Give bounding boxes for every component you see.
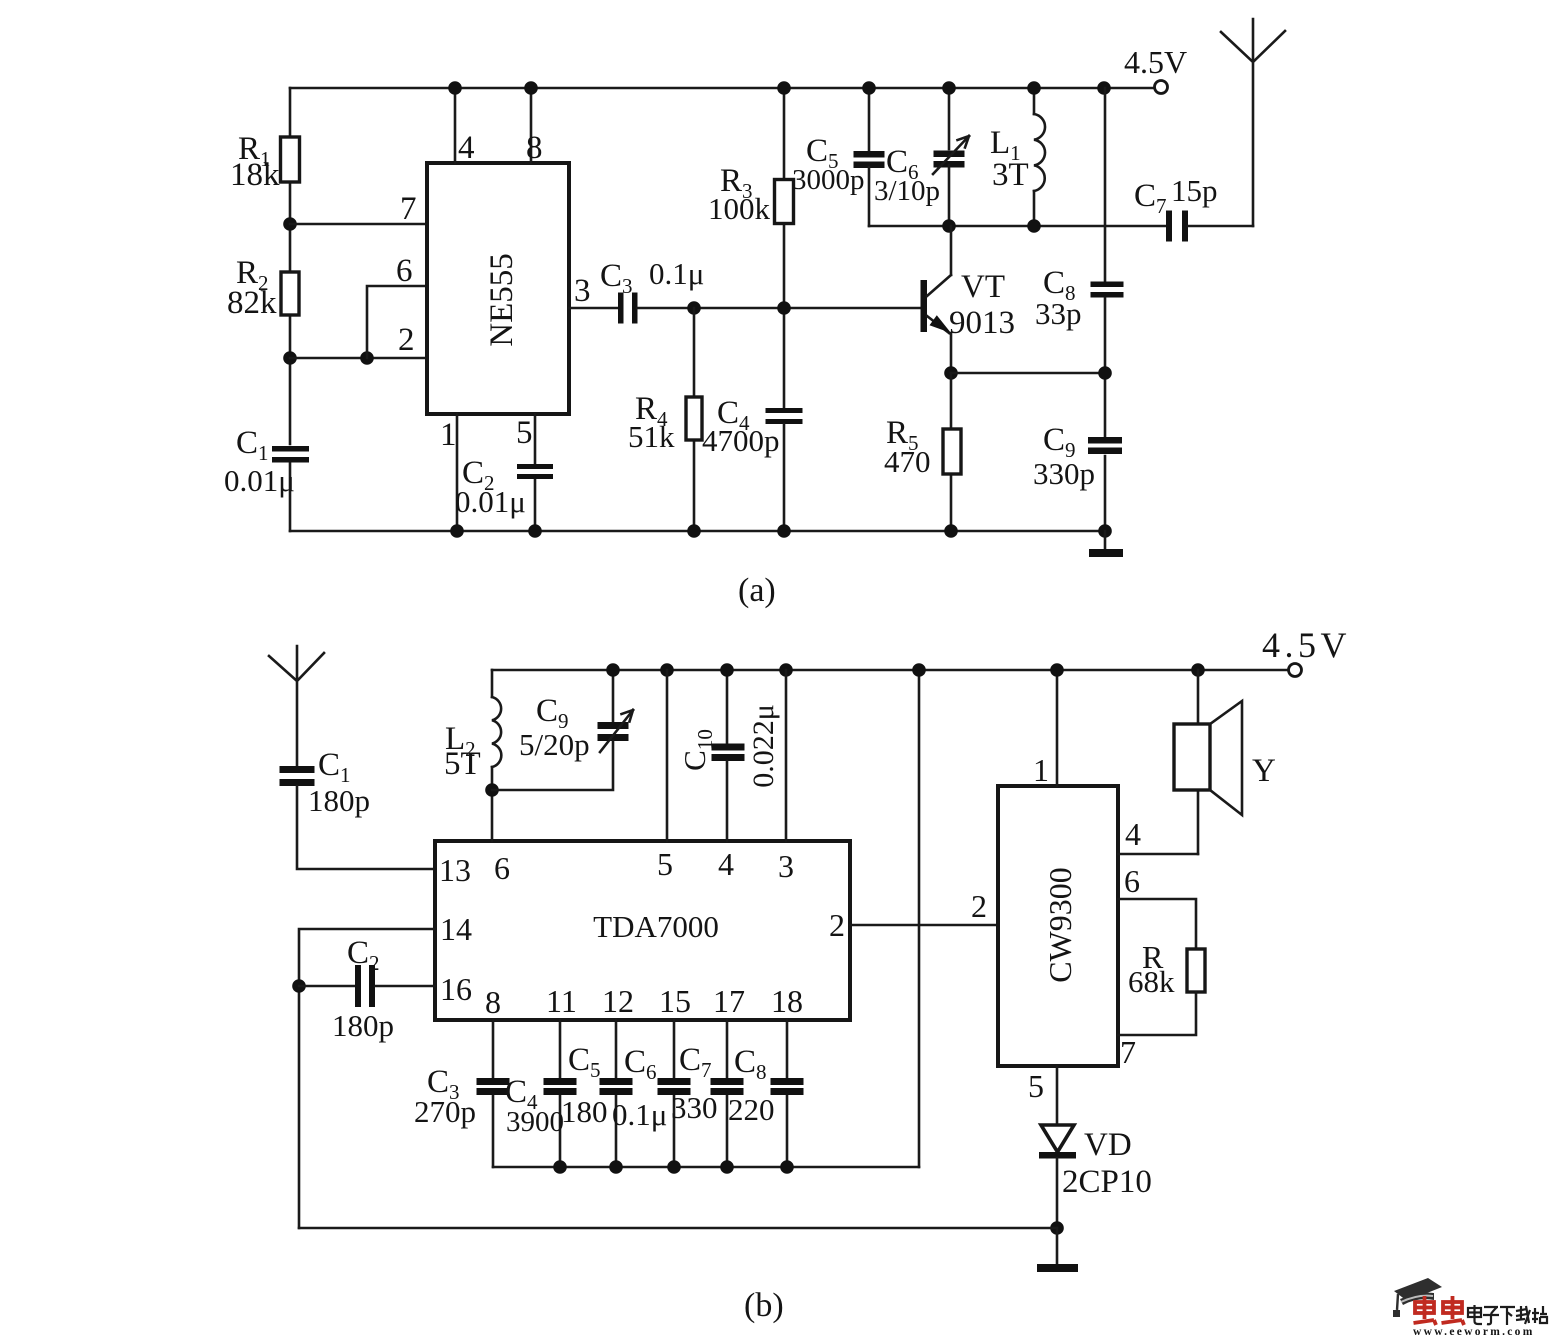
svg-text:3: 3 — [574, 273, 591, 309]
wire C9 lower + link to L2 — [492, 741, 613, 790]
wire pin 5 wire (b) — [666, 670, 669, 841]
antenna (b) — [269, 646, 324, 766]
IC U2 TDA7000 box — [435, 841, 850, 1020]
capacitor C4 4700p — [766, 408, 803, 413]
svg-text:0.01μ: 0.01μ — [455, 484, 526, 519]
svg-text:4700p: 4700p — [702, 423, 780, 458]
wire C8 branch upper — [1104, 88, 1107, 283]
wire R4 branch — [693, 308, 696, 531]
svg-text:18k: 18k — [230, 157, 280, 193]
wire L1 branch lower — [1033, 191, 1036, 226]
svg-text:17: 17 — [713, 983, 745, 1019]
svg-text:16: 16 — [440, 971, 472, 1007]
node node diode/bottom wire — [1050, 1221, 1064, 1235]
pin 7 wire CW9300 — [1118, 992, 1196, 1035]
node node bus 787 — [780, 1160, 794, 1174]
wire pin 6 to pin 2 tie — [367, 286, 427, 358]
svg-text:180p: 180p — [332, 1008, 394, 1043]
svg-text:180: 180 — [561, 1094, 608, 1129]
node node R3 rail — [777, 81, 791, 95]
resistor R1 18k — [281, 137, 300, 182]
node node collector/C6 — [942, 219, 956, 233]
wire C5 branch lower — [868, 167, 871, 226]
svg-text:5: 5 — [657, 846, 673, 882]
node node R5 gnd — [944, 524, 958, 538]
svg-text:270p: 270p — [414, 1094, 476, 1129]
wire pin 5 wire lower — [534, 479, 537, 531]
wire pin 2 wire — [290, 357, 427, 360]
svg-text:VT: VT — [961, 269, 1005, 305]
wire C4 bottom wire — [783, 424, 786, 531]
transistor Q1 VT 9013 — [921, 280, 928, 332]
wire L2 bottom to pin 6 — [491, 767, 494, 841]
wire pin 8 wire — [530, 88, 533, 163]
svg-text:www.eeworm.com: www.eeworm.com — [1413, 1326, 1535, 1337]
node junction R2/C1/pin2 — [283, 351, 297, 365]
svg-text:0.1μ: 0.1μ — [649, 256, 704, 291]
node node emitter — [944, 366, 958, 380]
wire caps ground bus — [493, 1166, 919, 1169]
node node bus 616 — [609, 1160, 623, 1174]
svg-text:4: 4 — [718, 846, 734, 882]
node node C10 rail — [720, 663, 734, 677]
antenna (a) — [1221, 19, 1285, 226]
svg-text:15p: 15p — [1171, 173, 1218, 208]
svg-text:4: 4 — [1125, 816, 1141, 852]
svg-text:8: 8 — [485, 984, 501, 1020]
capacitor C3 branch (b) — [492, 1020, 495, 1167]
svg-text:VD: VD — [1084, 1127, 1132, 1163]
node node L1 rail — [1027, 81, 1041, 95]
node junction R1/R2/pin7 — [283, 217, 297, 231]
svg-text:Y: Y — [1252, 753, 1276, 789]
svg-text:(a): (a) — [738, 572, 776, 609]
svg-text:13: 13 — [439, 852, 471, 888]
svg-text:3: 3 — [778, 848, 794, 884]
node node C6 rail — [942, 81, 956, 95]
svg-text:6: 6 — [1124, 863, 1140, 899]
wire pin 5 wire upper — [534, 414, 537, 464]
node node C2 gnd — [528, 524, 542, 538]
svg-text:2: 2 — [971, 888, 987, 924]
svg-text:330p: 330p — [1033, 456, 1095, 491]
node node bus 727 — [720, 1160, 734, 1174]
node node bus 674 — [667, 1160, 681, 1174]
svg-text:11: 11 — [546, 983, 577, 1019]
node node R3/C4/base line — [777, 301, 791, 315]
capacitor C7 branch (b) — [726, 1020, 729, 1167]
wire C2 to pin 16 — [375, 985, 435, 988]
svg-text:8: 8 — [526, 130, 543, 166]
svg-text:0.1μ: 0.1μ — [612, 1097, 667, 1132]
wire C10 upper — [726, 670, 729, 744]
svg-text:4.5V: 4.5V — [1124, 44, 1187, 80]
wire tank bottom line — [869, 225, 1166, 228]
watermark logo: graduation cap — [1393, 1278, 1442, 1317]
svg-text:NE555: NE555 — [484, 253, 520, 347]
node node gnd symbol — [1098, 524, 1112, 538]
wire pin 4 wire — [454, 88, 457, 163]
wire pin 3 wire — [569, 307, 618, 310]
svg-text:1: 1 — [440, 417, 457, 453]
wire C6 branch upper — [948, 88, 951, 149]
node node C4 gnd — [777, 524, 791, 538]
pin 1 wire CW9300 — [1056, 670, 1059, 786]
node node L2/C9 (b) — [485, 783, 499, 797]
svg-text:6: 6 — [396, 253, 413, 289]
svg-text:CW9300: CW9300 — [1042, 867, 1078, 983]
pin 6 wire CW9300 — [1118, 899, 1196, 949]
capacitor C7 15p antenna coupling — [1166, 211, 1172, 242]
svg-text:5: 5 — [516, 415, 533, 451]
svg-text:4: 4 — [458, 130, 475, 166]
wire diode to gnd node — [1056, 1158, 1059, 1228]
wire bottom long wire (b) — [299, 1227, 1057, 1230]
wire C10 lower — [726, 761, 729, 841]
wire pin 7 wire — [290, 223, 427, 226]
wire C9 bottom wire — [1104, 456, 1107, 531]
node node R4 gnd — [687, 524, 701, 538]
wire R3/C4 branch upper — [783, 88, 786, 408]
svg-text:18: 18 — [771, 983, 803, 1019]
diode VD 2CP10 — [1041, 1125, 1074, 1152]
wire C9 branch upper (b) — [612, 670, 615, 722]
op-amp U1 NE555 timer IC box — [427, 163, 569, 414]
svg-text:5T: 5T — [444, 746, 481, 782]
watermark red characters — [1414, 1296, 1465, 1325]
wire left vertical R1/R2/C1 branch upper — [289, 88, 292, 444]
wire C2 left wire — [299, 985, 355, 988]
svg-text:180p: 180p — [308, 783, 370, 818]
svg-text:3/10p: 3/10p — [874, 175, 940, 207]
svg-text:0.022μ: 0.022μ — [747, 704, 780, 788]
resistor R 68k — [1187, 949, 1205, 992]
svg-text:3T: 3T — [992, 157, 1029, 193]
svg-text:68k: 68k — [1128, 964, 1175, 999]
svg-text:TDA7000: TDA7000 — [593, 909, 719, 944]
node node pin1 gnd — [450, 524, 464, 538]
ground (a) — [1104, 531, 1107, 550]
power terminal 4.5V (b) — [1289, 664, 1302, 677]
wire L2 top — [491, 670, 494, 697]
node node C5 rail — [862, 81, 876, 95]
svg-text:2CP10: 2CP10 — [1062, 1164, 1152, 1200]
svg-text:100k: 100k — [708, 191, 771, 226]
wire emitter to C8/C9 node — [951, 372, 1105, 375]
capacitor C5 branch (b) — [615, 1020, 618, 1167]
node node CW pin1 rail — [1050, 663, 1064, 677]
capacitor C9 330p — [1088, 437, 1122, 444]
ground (b) — [1056, 1228, 1059, 1265]
svg-text:0.01μ: 0.01μ — [224, 463, 295, 498]
svg-text:33p: 33p — [1035, 296, 1082, 331]
node node speaker rail — [1191, 663, 1205, 677]
svg-text:5/20p: 5/20p — [519, 727, 590, 762]
wire pin 14 wire — [299, 929, 435, 1228]
capacitor C1 180p (b) — [280, 766, 315, 773]
svg-text:51k: 51k — [628, 419, 675, 454]
node node pin3 rail (b) — [779, 663, 793, 677]
capacitor C2 0.01u — [517, 464, 553, 469]
svg-text:12: 12 — [602, 983, 634, 1019]
svg-text:470: 470 — [884, 444, 931, 479]
wire pin 3 wire (b) — [785, 670, 788, 841]
wire R5 branch — [950, 373, 953, 531]
node node C2/pin14 (b) — [292, 979, 306, 993]
wire ground rail (a) — [290, 530, 1105, 533]
wire bus riser to rail — [918, 670, 921, 1167]
wire pin 2 wire TDA to CW — [850, 924, 998, 927]
node node rail/C8 branch — [1097, 81, 1111, 95]
wire C7 to antenna — [1188, 225, 1253, 228]
IC U3 CW9300 audio amp box — [998, 786, 1118, 1066]
wire top 4.5V rail (b) — [492, 669, 1288, 672]
svg-text:220: 220 — [728, 1092, 775, 1127]
wire C6 branch lower — [948, 165, 951, 226]
svg-text:2: 2 — [398, 322, 415, 358]
svg-text:330: 330 — [671, 1090, 718, 1125]
svg-text:3900: 3900 — [506, 1106, 564, 1138]
node node pin8 rail — [524, 81, 538, 95]
capacitor C8 branch (b) — [786, 1020, 789, 1167]
wire L1 branch upper — [1033, 88, 1036, 114]
svg-text:(b): (b) — [744, 1287, 784, 1324]
node node C8/C9/emitter — [1098, 366, 1112, 380]
svg-text:2: 2 — [829, 907, 845, 943]
svg-text:9013: 9013 — [949, 305, 1015, 341]
svg-text:7: 7 — [1120, 1034, 1136, 1070]
wire C3 to base node — [637, 307, 921, 310]
node node L1 bottom — [1027, 219, 1041, 233]
node node pin5 rail (b) — [660, 663, 674, 677]
node node C9 rail (b) — [606, 663, 620, 677]
svg-text:7: 7 — [400, 191, 417, 227]
capacitor C1 0.01u — [272, 446, 309, 452]
node node bus 560 — [553, 1160, 567, 1174]
wire left vertical C1 bottom to ground rail — [289, 460, 292, 531]
node node pin4 rail — [448, 81, 462, 95]
pin 5 wire CW9300 — [1056, 1066, 1059, 1125]
svg-text:3000p: 3000p — [792, 164, 865, 196]
svg-text:4.5V: 4.5V — [1262, 625, 1351, 665]
node node C3/R4 — [687, 301, 701, 315]
capacitor C4 branch (b) — [559, 1020, 562, 1167]
svg-text:6: 6 — [494, 850, 510, 886]
wire C1 to pin 13 — [297, 786, 435, 869]
wire C8 to emitter node — [1104, 298, 1107, 441]
node node riser rail — [912, 663, 926, 677]
resistor R2 82k — [281, 272, 299, 315]
svg-text:15: 15 — [659, 983, 691, 1019]
wire C5 branch upper — [868, 88, 871, 152]
capacitor C3 0.1u coupling — [618, 293, 624, 324]
svg-text:1: 1 — [1033, 752, 1049, 788]
wire pin 1 wire — [456, 414, 459, 531]
svg-text:14: 14 — [440, 911, 472, 947]
watermark black site name characters — [1468, 1305, 1547, 1325]
wire top 4.5V rail (a) — [290, 87, 1154, 90]
svg-text:82k: 82k — [227, 285, 277, 321]
svg-text:5: 5 — [1028, 1068, 1044, 1104]
pin 4 wire CW9300 — [1118, 853, 1198, 856]
capacitor C6 branch (b) — [673, 1020, 676, 1167]
node junction pin2/pin6 tie — [360, 351, 374, 365]
